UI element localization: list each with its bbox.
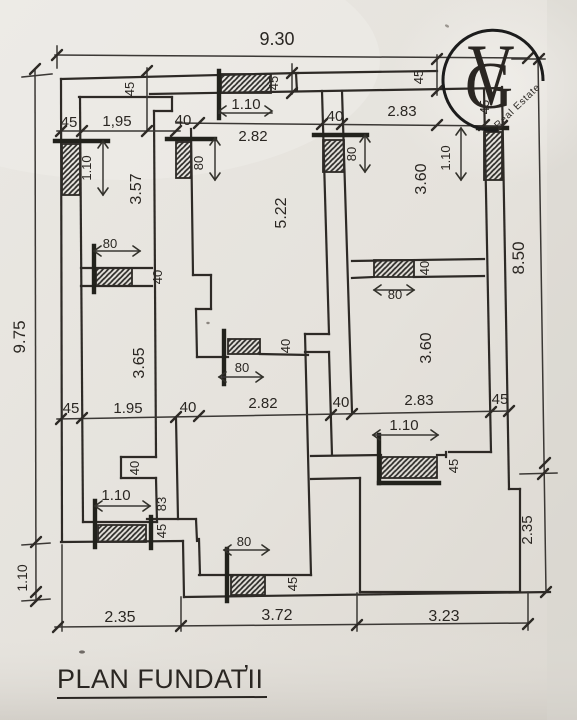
svg-text:3.72: 3.72	[261, 607, 292, 624]
svg-text:45: 45	[122, 82, 137, 96]
svg-text:2.82: 2.82	[248, 395, 277, 412]
svg-text:5.22: 5.22	[273, 197, 290, 228]
svg-text:2.35: 2.35	[519, 515, 536, 544]
svg-text:PLAN FUNDAT̛II: PLAN FUNDAT̛II	[57, 663, 267, 694]
svg-text:40: 40	[180, 399, 197, 416]
svg-text:9.30: 9.30	[259, 29, 294, 49]
svg-text:40: 40	[333, 394, 350, 411]
svg-text:40: 40	[127, 461, 142, 475]
svg-text:2.83: 2.83	[404, 392, 433, 409]
svg-text:3.60: 3.60	[418, 332, 435, 363]
svg-text:1.10: 1.10	[14, 564, 30, 591]
svg-text:1.10: 1.10	[231, 96, 260, 113]
svg-text:2.83: 2.83	[387, 103, 416, 120]
svg-text:1.10: 1.10	[438, 145, 453, 170]
svg-text:40: 40	[175, 112, 192, 129]
svg-text:80: 80	[388, 287, 402, 302]
svg-text:80: 80	[344, 147, 359, 161]
svg-text:3.23: 3.23	[428, 608, 459, 625]
svg-text:40: 40	[150, 270, 165, 284]
svg-text:40: 40	[327, 108, 344, 125]
svg-text:3.65: 3.65	[131, 347, 148, 378]
svg-text:45: 45	[154, 524, 169, 538]
svg-text:45: 45	[63, 400, 80, 417]
svg-text:40: 40	[278, 339, 293, 353]
svg-text:1,95: 1,95	[102, 113, 131, 130]
svg-text:45: 45	[285, 577, 300, 591]
svg-text:3.57: 3.57	[128, 173, 145, 204]
svg-text:80: 80	[103, 236, 117, 251]
svg-text:45: 45	[492, 391, 509, 408]
svg-text:2.35: 2.35	[104, 609, 135, 626]
svg-text:1.10: 1.10	[101, 487, 130, 504]
svg-text:3.60: 3.60	[413, 163, 430, 194]
svg-text:45: 45	[61, 114, 78, 131]
svg-text:1.10: 1.10	[389, 417, 418, 434]
svg-text:45: 45	[411, 70, 426, 84]
svg-text:1.95: 1.95	[113, 400, 142, 417]
svg-text:2.82: 2.82	[238, 128, 267, 145]
svg-text:45: 45	[446, 459, 461, 473]
svg-text:80: 80	[191, 156, 206, 170]
svg-text:40: 40	[417, 261, 432, 275]
svg-text:1.10: 1.10	[79, 155, 94, 180]
svg-text:80: 80	[237, 534, 251, 549]
svg-text:80: 80	[235, 360, 249, 375]
svg-text:83: 83	[154, 497, 169, 511]
svg-text:45: 45	[266, 76, 281, 90]
svg-text:9.75: 9.75	[10, 320, 29, 353]
svg-text:8.50: 8.50	[509, 241, 528, 274]
